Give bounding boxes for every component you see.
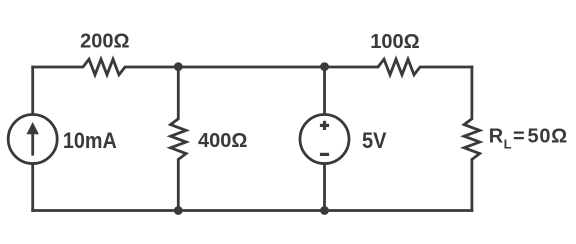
svg-text:200Ω: 200Ω: [80, 30, 129, 52]
svg-text:L: L: [504, 137, 512, 152]
svg-text:=: =: [513, 126, 525, 148]
svg-text:50Ω: 50Ω: [528, 126, 568, 148]
svg-text:400Ω: 400Ω: [198, 130, 247, 152]
svg-text:5V: 5V: [362, 129, 386, 153]
svg-text:10mA: 10mA: [63, 129, 117, 153]
svg-text:R: R: [489, 126, 504, 148]
svg-text:100Ω: 100Ω: [370, 31, 419, 53]
